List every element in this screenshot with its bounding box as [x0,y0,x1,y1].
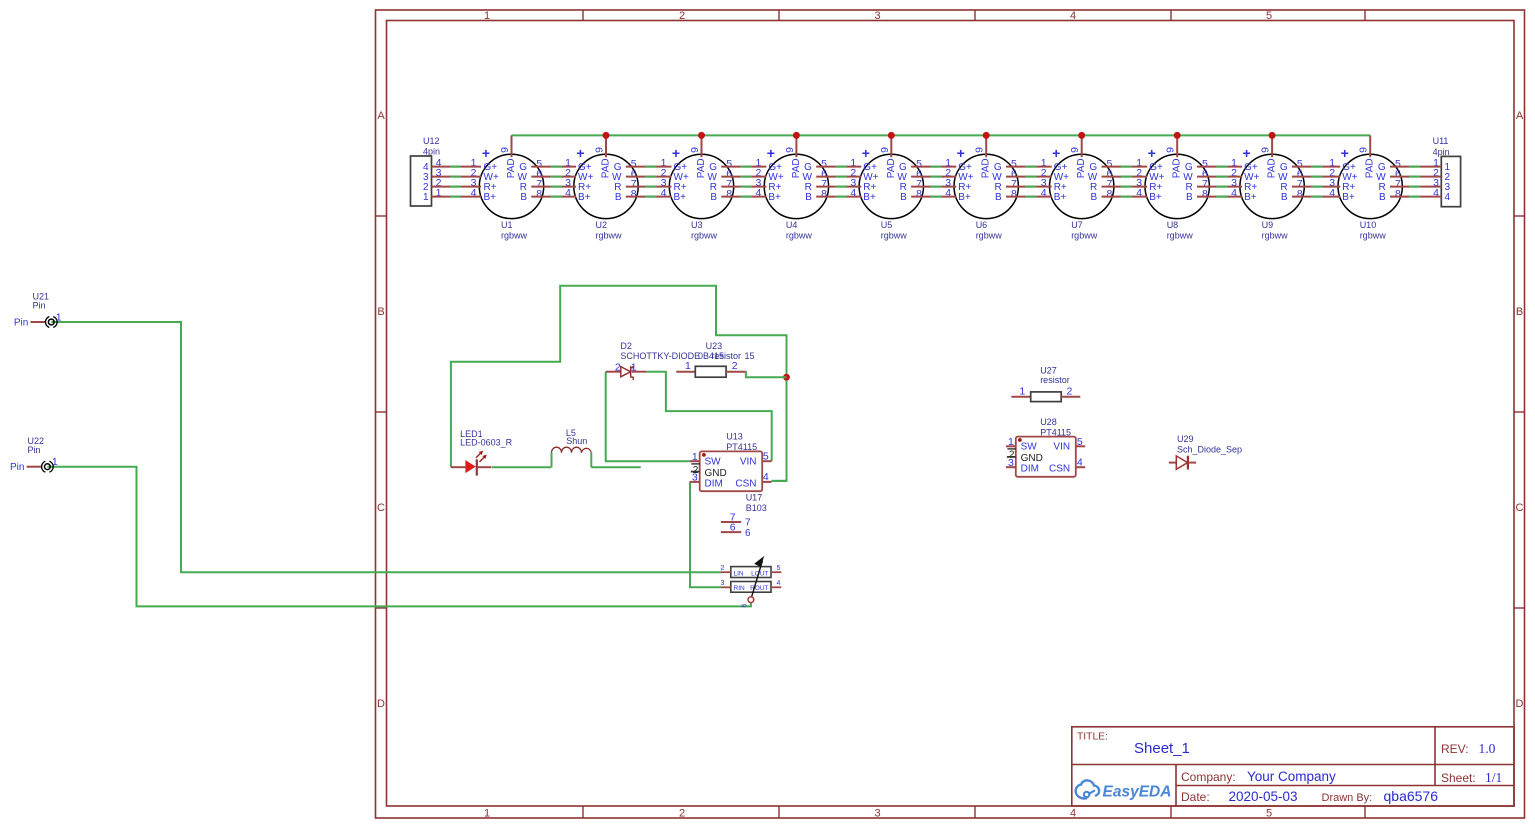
EasyEDA logo [1076,780,1172,800]
svg-text:5: 5 [1266,807,1272,819]
svg-text:SW: SW [1021,442,1038,453]
wire PAD bus (net to pin 9 of U1..U10) [512,134,1371,136]
svg-text:Sheet:: Sheet: [1441,771,1476,785]
rgbww LED U8 [1136,135,1209,240]
title block REV field [1441,741,1496,756]
svg-text:8: 8 [1202,188,1208,200]
svg-text:PAD: PAD [1267,158,1278,178]
svg-text:U8: U8 [1167,220,1179,230]
svg-text:U5: U5 [881,220,893,230]
wire U7 to U8 [1102,167,1148,197]
svg-text:RIN: RIN [734,585,746,592]
svg-text:PAD: PAD [886,158,897,178]
svg-text:2: 2 [721,565,725,572]
svg-text:TITLE:: TITLE: [1077,732,1108,743]
svg-text:U4: U4 [786,220,798,230]
svg-text:rgbww: rgbww [596,230,623,240]
svg-text:REV:: REV: [1441,742,1469,756]
svg-text:B+: B+ [674,192,687,203]
svg-text:1.0: 1.0 [1479,741,1496,756]
svg-text:+: + [957,145,965,161]
svg-text:9: 9 [499,147,511,153]
wire U8 to U9 [1197,167,1242,197]
svg-text:PT4115: PT4115 [726,442,757,452]
svg-text:PAD: PAD [696,158,707,178]
svg-text:3: 3 [692,472,698,484]
svg-text:+: + [1243,145,1251,161]
svg-text:rgbww: rgbww [1262,230,1289,240]
svg-text:4pin: 4pin [1433,147,1450,157]
wire main loop LED1 to CSN [451,286,787,481]
svg-text:9: 9 [879,147,891,153]
svg-text:B: B [900,192,907,203]
svg-text:rgbww: rgbww [786,230,813,240]
svg-text:rgbww: rgbww [881,230,908,240]
svg-text:9: 9 [1165,147,1177,153]
svg-text:+: + [862,145,870,161]
pin connector U21 [14,291,49,328]
title block Date field [1181,788,1438,804]
svg-text:3: 3 [721,580,725,587]
svg-text:U23: U23 [706,341,723,351]
svg-text:B: B [710,192,717,203]
junction node at U23 pin 2 [783,374,790,381]
svg-text:D: D [377,698,385,710]
rgbww LED U6 [945,135,1018,240]
svg-text:5: 5 [777,565,781,572]
pin U21 terminal circle [45,311,61,327]
svg-text:+: + [1341,145,1349,161]
svg-text:1/1: 1/1 [1485,770,1502,785]
svg-text:6: 6 [730,521,736,533]
svg-text:EasyEDA: EasyEDA [1103,784,1172,801]
svg-text:6: 6 [742,603,749,607]
svg-text:8: 8 [631,188,637,200]
svg-text:U13: U13 [726,432,743,442]
svg-text:9: 9 [974,147,986,153]
wire U2 to U3 [626,167,672,197]
svg-text:U29: U29 [1177,434,1194,444]
svg-text:Pin: Pin [10,462,24,473]
svg-text:1: 1 [484,10,490,22]
svg-text:PAD: PAD [981,158,992,178]
svg-text:+: + [1148,145,1156,161]
svg-text:Drawn By:: Drawn By: [1322,792,1373,804]
svg-text:4: 4 [763,471,769,483]
rgbww LED U10 [1329,135,1402,240]
svg-text:D2: D2 [620,341,632,351]
pin connector U22 [10,436,44,473]
wire U13 CSN to loop [772,480,787,482]
svg-text:2: 2 [1066,385,1072,397]
svg-text:rgbww: rgbww [691,230,718,240]
wire L5 right lead [590,453,592,467]
svg-text:1: 1 [692,451,698,463]
svg-text:U28: U28 [1040,417,1057,427]
svg-text:C: C [1516,502,1524,514]
svg-text:9: 9 [1069,147,1081,153]
svg-text:Date:: Date: [1181,790,1210,804]
svg-text:VIN: VIN [1053,442,1070,453]
svg-text:4: 4 [1077,456,1083,468]
wire U1 to U2 [531,167,576,197]
svg-text:B: B [1379,192,1386,203]
wire U9 to U10 [1292,167,1340,197]
svg-text:B: B [805,192,812,203]
schottky diode U29 [1169,434,1242,469]
svg-text:4: 4 [777,580,781,587]
wire U5 to U6 [911,167,956,197]
svg-text:GND: GND [1021,453,1043,464]
svg-text:+: + [1052,145,1060,161]
svg-text:9: 9 [1260,147,1272,153]
svg-text:Sch_Diode_Sep: Sch_Diode_Sep [1177,444,1242,454]
resistor U27 [1011,366,1080,402]
svg-text:B: B [1186,192,1193,203]
svg-text:6: 6 [745,528,751,539]
svg-text:resistor: resistor [1040,375,1070,385]
svg-text:5: 5 [1266,10,1272,22]
svg-text:C: C [377,502,385,514]
svg-text:2: 2 [732,360,738,372]
svg-text:15: 15 [745,351,755,361]
wire U22 pin to potentiometer wiper [47,467,751,607]
svg-text:3: 3 [1008,457,1014,469]
svg-text:4: 4 [1070,807,1076,819]
svg-text:U2: U2 [596,220,608,230]
svg-text:1: 1 [685,360,691,372]
svg-text:1: 1 [52,456,58,468]
svg-text:B: B [1091,192,1098,203]
svg-text:Company:: Company: [1181,770,1236,784]
svg-text:U7: U7 [1071,220,1083,230]
title block border [1072,727,1514,806]
svg-text:B+: B+ [863,192,876,203]
svg-text:Pin: Pin [33,301,46,311]
wire U13 DIM to potentiometer RIN [690,482,721,587]
svg-text:2020-05-03: 2020-05-03 [1229,789,1298,804]
svg-text:8: 8 [1106,188,1112,200]
svg-text:9: 9 [784,147,796,153]
svg-text:Sheet_1: Sheet_1 [1134,740,1190,757]
svg-text:+: + [576,145,584,161]
svg-text:CSN: CSN [1049,464,1070,475]
frame row ticks [376,216,1525,608]
svg-text:A: A [377,110,385,122]
wire stub from L5 [591,466,640,468]
svg-text:1: 1 [484,807,490,819]
junction dots on PAD bus [603,132,1276,139]
svg-text:B+: B+ [1244,192,1257,203]
svg-text:U6: U6 [976,220,988,230]
svg-text:rgbww: rgbww [1071,230,1098,240]
svg-text:B103: B103 [746,503,767,513]
LED LED1 [451,429,513,476]
IC U28 PT4115 [1006,417,1085,477]
svg-text:1: 1 [1008,436,1014,448]
svg-text:PAD: PAD [506,158,517,178]
svg-text:B: B [615,192,622,203]
svg-text:U9: U9 [1262,220,1274,230]
svg-text:rgbww: rgbww [1167,230,1194,240]
svg-text:8: 8 [726,188,732,200]
wire L5 left lead [551,453,553,467]
svg-text:LED-0603_R: LED-0603_R [460,437,513,447]
svg-text:B+: B+ [578,192,591,203]
svg-text:B: B [995,192,1002,203]
svg-text:rgbww: rgbww [976,230,1003,240]
svg-text:U1: U1 [501,220,513,230]
svg-text:8: 8 [821,188,827,200]
rgbww LED U2 [565,135,638,240]
svg-text:Pin: Pin [28,445,41,455]
connector U11 4pin [1433,136,1461,207]
svg-text:B: B [1516,306,1523,318]
inductor L5 [552,428,592,453]
wire U23 pin2 to loop junction [745,372,786,378]
svg-text:PAD: PAD [1076,158,1087,178]
wire U4 to U5 [816,167,861,197]
svg-text:8: 8 [1297,188,1303,200]
connector U12 4pin [411,136,442,206]
svg-text:+: + [482,145,490,161]
component U17 B103 unconnected pins [721,492,767,539]
svg-text:B: B [1281,192,1288,203]
svg-text:DIM: DIM [705,478,723,489]
svg-text:+: + [672,145,680,161]
svg-text:1: 1 [423,192,429,203]
svg-text:3: 3 [874,10,880,22]
svg-text:B: B [520,192,527,203]
resistor U23 [676,341,754,377]
svg-text:U12: U12 [423,136,440,146]
svg-text:5: 5 [763,451,769,463]
svg-text:4: 4 [1445,192,1451,203]
IC U13 PT4115 [690,432,772,491]
rgbww LED U3 [661,135,734,240]
title block TITLE field [1077,732,1190,758]
svg-text:5: 5 [1077,436,1083,448]
schottky diode D2 [606,341,700,380]
svg-text:9: 9 [1358,147,1370,153]
sheet frame inner border [387,21,1515,807]
svg-text:GND: GND [705,468,727,479]
sheet frame outer border [376,10,1525,818]
svg-text:U11: U11 [1433,136,1449,146]
svg-text:Your Company: Your Company [1247,769,1336,784]
svg-text:VIN: VIN [740,457,757,468]
svg-text:4pin: 4pin [423,146,440,156]
svg-text:8: 8 [1011,188,1017,200]
svg-text:1: 1 [631,361,637,373]
svg-text:B+: B+ [1054,192,1067,203]
frame column labels [484,10,1272,819]
svg-text:U10: U10 [1360,220,1377,230]
wire U21 pin to potentiometer LIN [51,322,721,572]
potentiometer U17 B103 body [721,556,782,608]
wire U10 to U11 [1390,167,1441,197]
svg-text:1: 1 [56,311,62,323]
svg-text:CSN: CSN [735,478,756,489]
svg-text:qba6576: qba6576 [1384,788,1439,804]
wire U3 to U4 [721,167,766,197]
svg-text:Shun: Shun [566,436,587,446]
svg-text:9: 9 [594,147,606,153]
svg-text:A: A [1516,110,1524,122]
wire D2 pin2 to U13 SW [606,372,690,462]
svg-text:3: 3 [874,807,880,819]
title block Sheet field [1441,770,1502,785]
svg-text:D: D [1516,698,1524,710]
svg-text:B+: B+ [484,192,497,203]
svg-text:U3: U3 [691,220,703,230]
svg-text:2: 2 [679,807,685,819]
svg-text:rgbww: rgbww [1360,230,1387,240]
wire LED1 to L5 [492,466,552,468]
svg-text:1: 1 [1019,385,1025,397]
svg-text:PAD: PAD [791,158,802,178]
rgbww LED U5 [850,135,923,240]
rgbww LED U1 [471,135,544,240]
wire D2 pin1 to U13 VIN [646,372,772,462]
rgbww LED U9 [1231,135,1304,240]
svg-text:B: B [377,306,384,318]
svg-text:B+: B+ [1149,192,1162,203]
rgbww LED U4 [755,135,828,240]
svg-text:+: + [767,145,775,161]
svg-text:LIN: LIN [734,570,744,577]
svg-text:4: 4 [1070,10,1076,22]
svg-text:B+: B+ [958,192,971,203]
svg-text:8: 8 [536,188,542,200]
pin U22 terminal circle [42,456,58,472]
svg-text:SW: SW [705,457,722,468]
svg-text:Pin: Pin [14,317,28,328]
svg-text:PAD: PAD [1365,158,1376,178]
svg-text:PAD: PAD [601,158,612,178]
rgbww LED U7 [1041,135,1114,240]
frame row labels [377,110,1524,710]
svg-text:8: 8 [1395,188,1401,200]
svg-text:9: 9 [689,147,701,153]
svg-text:B+: B+ [768,192,781,203]
wire U6 to U7 [1006,167,1052,197]
svg-text:2: 2 [615,361,621,373]
svg-text:U17: U17 [746,492,763,502]
svg-text:DIM: DIM [1021,464,1039,475]
svg-text:PAD: PAD [1172,158,1183,178]
svg-text:2: 2 [679,10,685,22]
svg-text:rgbww: rgbww [501,230,528,240]
title block Company field [1181,769,1336,784]
svg-text:8: 8 [916,188,922,200]
frame column ticks [583,10,1365,818]
wire U12 to U1 [432,167,482,197]
svg-text:B+: B+ [1342,192,1355,203]
